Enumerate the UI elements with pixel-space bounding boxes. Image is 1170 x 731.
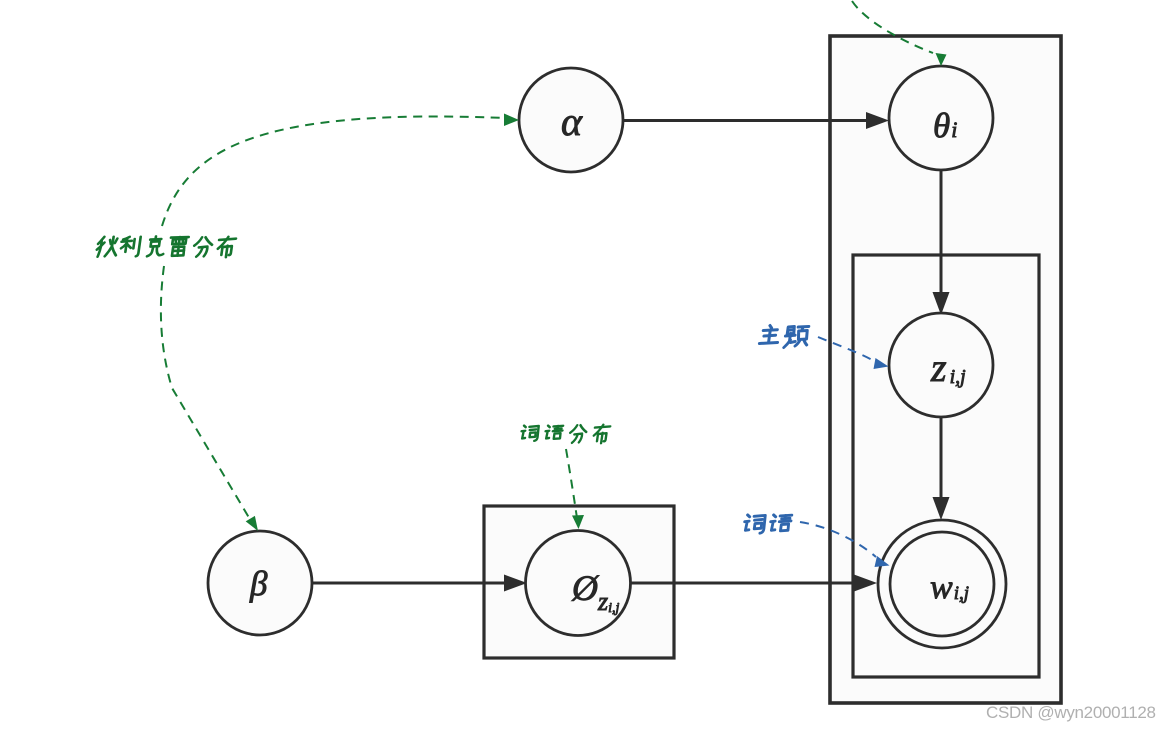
svg-text:β: β [249, 564, 268, 603]
svg-text:α: α [561, 99, 583, 144]
svg-text:CSDN @wyn20001128: CSDN @wyn20001128 [986, 703, 1156, 722]
